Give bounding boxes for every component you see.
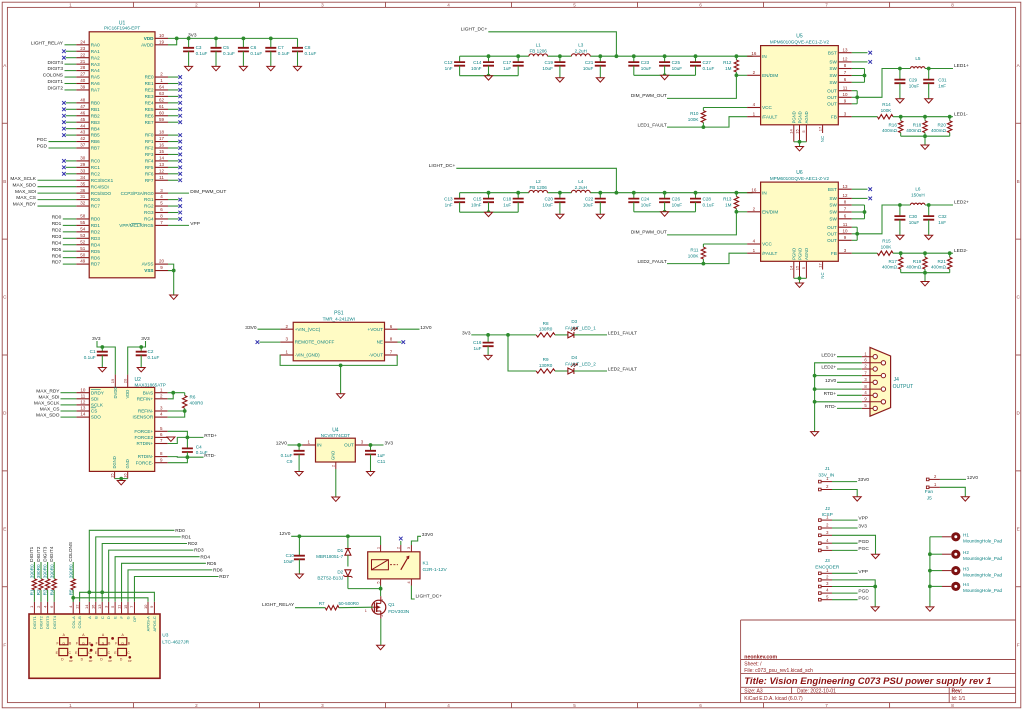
- svg-text:5: 5: [573, 703, 576, 708]
- U1 pin 4 RG1: [144, 194, 182, 202]
- svg-text:3: 3: [160, 188, 163, 193]
- svg-text:RB4: RB4: [91, 126, 100, 131]
- svg-text:VPP: VPP: [190, 221, 200, 227]
- svg-text:H2: H2: [963, 550, 969, 555]
- svg-text:DGND: DGND: [112, 456, 117, 468]
- svg-text:DRDY: DRDY: [91, 390, 104, 395]
- wire RD4 to display segment: [115, 554, 210, 602]
- U1 pin 45 RB3: [62, 117, 100, 125]
- svg-text:RC4/SDI: RC4/SDI: [91, 184, 109, 189]
- svg-text:12: 12: [843, 57, 849, 62]
- svg-text:2: 2: [753, 70, 756, 75]
- svg-text:2: 2: [36, 605, 41, 608]
- svg-text:400mΩ: 400mΩ: [906, 128, 921, 133]
- svg-text:J1: J1: [825, 466, 830, 472]
- U1 pin 32 RC7: [13, 201, 101, 209]
- svg-text:2: 2: [195, 703, 198, 708]
- svg-text:RC6: RC6: [91, 197, 101, 202]
- svg-text:MAX_RDY: MAX_RDY: [13, 202, 37, 208]
- PS1 pin 7 -VOUT: [369, 350, 398, 358]
- svg-text:R13: R13: [723, 196, 732, 201]
- svg-text:COL-A: COL-A: [71, 616, 76, 629]
- U6 pin 10 OUT: [827, 228, 857, 236]
- U2 pin 3 REFIN-: [138, 406, 168, 414]
- wire gnd loop left cap group: [460, 74, 519, 78]
- svg-text:RB6: RB6: [91, 139, 100, 144]
- svg-text:11: 11: [843, 222, 848, 227]
- U1 pin 39 RA7: [48, 85, 101, 93]
- svg-text:MBR18051-7: MBR18051-7: [316, 554, 344, 559]
- svg-text:RG4: RG4: [144, 217, 154, 222]
- U5 pin 2 EN/DIM: [735, 70, 779, 78]
- svg-text:C18: C18: [503, 196, 512, 201]
- wire OUT tie to LED+ rail: [855, 205, 910, 240]
- svg-text:LIGHT_DC+: LIGHT_DC+: [461, 26, 488, 32]
- U5 pin 16 IN: [736, 51, 766, 59]
- svg-text:61: 61: [159, 104, 165, 109]
- capacitor C20 10uF: [542, 191, 565, 214]
- U6 pin 13 BST: [828, 184, 872, 192]
- svg-text:Title: Vision Engineering C073: Title: Vision Engineering C073 PSU power…: [744, 676, 991, 687]
- svg-text:GND: GND: [125, 459, 130, 468]
- wire FORCE- to RTD- node: [168, 457, 188, 463]
- svg-text:390R0: 390R0: [68, 564, 73, 578]
- svg-text:C1: C1: [90, 349, 96, 354]
- svg-text:COLONS: COLONS: [68, 542, 73, 562]
- inductor L4 2.2uH: [571, 179, 590, 193]
- svg-text:390R0: 390R0: [43, 564, 48, 578]
- svg-text:RD2: RD2: [52, 227, 62, 233]
- U1 pin 59 RE7: [145, 117, 182, 125]
- ground at C11: [367, 472, 375, 476]
- svg-text:MountingHole_Pad: MountingHole_Pad: [963, 556, 1003, 561]
- J4 pin 1: [862, 351, 878, 359]
- U2 pin 16 GND: [122, 459, 130, 478]
- svg-text:DP: DP: [132, 616, 137, 622]
- svg-text:49: 49: [80, 259, 86, 264]
- svg-text:F: F: [115, 641, 117, 645]
- svg-text:SDO: SDO: [91, 415, 101, 420]
- U2 pin 7 RTDIN+: [137, 438, 168, 446]
- svg-text:39: 39: [80, 85, 86, 90]
- svg-text:DIGIT1: DIGIT1: [48, 79, 64, 85]
- svg-text:1: 1: [69, 3, 72, 8]
- svg-text:MountingHole_Pad: MountingHole_Pad: [963, 588, 1003, 593]
- wire IN rail of U6: [460, 191, 753, 195]
- ground at C1: [98, 368, 106, 372]
- U1 pin 11 RF7: [145, 175, 182, 183]
- svg-text:C32: C32: [938, 214, 947, 219]
- U2 pin 1 BIAS: [143, 387, 168, 395]
- led D3 FAULT_LED_1: [565, 319, 637, 338]
- svg-text:C25: C25: [672, 60, 681, 65]
- svg-text:2: 2: [934, 474, 937, 479]
- svg-text:RD7: RD7: [52, 260, 62, 266]
- svg-text:DIGIT3: DIGIT3: [48, 66, 64, 72]
- svg-text:RTDIN-: RTDIN-: [138, 454, 154, 459]
- svg-text:10uF: 10uF: [641, 66, 652, 71]
- svg-text:28: 28: [80, 65, 86, 70]
- svg-text:7: 7: [390, 350, 393, 355]
- U1 pin 49 RD7: [52, 259, 101, 267]
- resistor R19 400mOhm: [906, 253, 927, 273]
- svg-text:12: 12: [74, 604, 79, 609]
- capacitor C31 1nF: [923, 67, 953, 99]
- svg-text:+VOUT: +VOUT: [368, 327, 384, 332]
- svg-text:10: 10: [80, 387, 86, 392]
- J4 pin 4: [862, 390, 878, 397]
- svg-text:10nF: 10nF: [471, 202, 482, 207]
- svg-text:1: 1: [365, 609, 367, 613]
- svg-text:6: 6: [844, 77, 847, 82]
- ground at J3: [871, 607, 879, 611]
- svg-text:11: 11: [843, 85, 848, 90]
- svg-text:10uF: 10uF: [583, 202, 594, 207]
- svg-text:RD5: RD5: [207, 561, 217, 567]
- svg-text:L4: L4: [578, 179, 584, 184]
- svg-text:PGND: PGND: [797, 111, 802, 123]
- svg-text:OUT: OUT: [827, 238, 837, 243]
- svg-text:SDI: SDI: [91, 396, 99, 401]
- svg-text:RF1: RF1: [145, 139, 154, 144]
- svg-text:42: 42: [80, 136, 86, 141]
- wire 3V3 rail at U1 VDD: [168, 33, 298, 45]
- svg-text:150uH: 150uH: [911, 192, 925, 197]
- power flag 3V3 fault leds: [462, 331, 510, 337]
- svg-text:C13: C13: [444, 196, 453, 201]
- ground at J2: [872, 554, 880, 558]
- svg-text:3: 3: [103, 605, 108, 608]
- U4 pin 2 GND: [330, 451, 336, 497]
- svg-text:3: 3: [826, 530, 829, 535]
- svg-text:OUT: OUT: [827, 231, 837, 236]
- svg-text:C: C: [1017, 295, 1021, 300]
- svg-text:RC2: RC2: [91, 171, 101, 176]
- svg-text:6: 6: [844, 213, 847, 218]
- U6 pin 6 SW: [829, 213, 864, 221]
- U1 pin 18 RF0: [145, 130, 182, 138]
- svg-text:J5: J5: [927, 495, 932, 501]
- U1 pin 2 RE0: [145, 72, 182, 80]
- ground at J1: [853, 497, 861, 501]
- svg-text:F: F: [76, 641, 78, 645]
- svg-text:D3: D3: [571, 319, 577, 324]
- svg-text:4: 4: [68, 605, 73, 608]
- svg-text:3: 3: [160, 406, 163, 411]
- svg-text:35: 35: [80, 181, 86, 186]
- svg-text:RF5: RF5: [145, 165, 154, 170]
- ground at C2: [137, 368, 145, 372]
- svg-text:SW: SW: [829, 60, 837, 65]
- power flag 3V3 at C2: [128, 336, 150, 375]
- U3 pin 1 DIGIT1: [29, 602, 37, 629]
- svg-text:0.1uF: 0.1uF: [84, 355, 96, 360]
- svg-text:C5: C5: [223, 45, 229, 50]
- U3 pin 13 C: [97, 602, 105, 619]
- svg-text:C24: C24: [641, 196, 650, 201]
- svg-text:R7: R7: [319, 601, 325, 606]
- J1 pin 2 -> gnd: [819, 484, 858, 497]
- svg-text:12V0: 12V0: [276, 441, 288, 447]
- svg-text:0.1uF: 0.1uF: [278, 51, 290, 56]
- svg-text:OUT: OUT: [827, 101, 837, 106]
- svg-text:130R0: 130R0: [539, 327, 553, 332]
- svg-text:7: 7: [844, 70, 847, 75]
- U5 pin 13 BST: [828, 47, 872, 55]
- svg-text:RF6: RF6: [145, 171, 154, 176]
- svg-text:7: 7: [864, 370, 867, 375]
- resistor R4 390R0: [49, 562, 56, 602]
- svg-text:7: 7: [160, 438, 163, 443]
- svg-text:RE4: RE4: [145, 100, 154, 105]
- relay K1 G2R-1-12V body: [368, 552, 448, 579]
- U1 pin 60 RE6: [145, 110, 182, 118]
- svg-text:13: 13: [843, 47, 849, 52]
- svg-text:OUT: OUT: [827, 95, 837, 100]
- svg-text:10uF: 10uF: [542, 66, 553, 71]
- svg-text:RTD-: RTD-: [825, 404, 837, 410]
- wire DIM_PWM_OUT to EN/DIM: [631, 212, 737, 236]
- svg-text:C12: C12: [444, 60, 453, 65]
- svg-text:8: 8: [951, 703, 954, 708]
- svg-text:PGND: PGND: [792, 248, 797, 260]
- svg-text:MAX_SDI: MAX_SDI: [38, 394, 59, 400]
- wire J4 pin3 12V0: [825, 378, 862, 384]
- svg-text:EN/DIM: EN/DIM: [762, 209, 778, 214]
- J4 pin 2: [862, 364, 878, 371]
- svg-text:10uF: 10uF: [542, 202, 553, 207]
- svg-text:R6: R6: [190, 394, 196, 399]
- svg-text:16: 16: [122, 473, 127, 478]
- svg-text:23: 23: [80, 46, 86, 51]
- K1 contact pin 2 no-connect: [396, 537, 403, 552]
- wire sense resistor bottoms: [901, 134, 950, 145]
- U2 pin 14 SDO: [36, 412, 101, 420]
- svg-text:/FAULT: /FAULT: [762, 114, 777, 119]
- svg-text:RA3: RA3: [91, 62, 100, 67]
- U3 pin 14 A: [84, 602, 92, 619]
- svg-text:MAX_SDI: MAX_SDI: [15, 189, 36, 195]
- svg-text:12: 12: [159, 168, 165, 173]
- svg-text:DVDD: DVDD: [113, 387, 118, 399]
- svg-text:0.1uF: 0.1uF: [196, 51, 208, 56]
- U5 pin 6 SW: [829, 77, 864, 85]
- U1 pin 31 RC6: [16, 194, 100, 202]
- svg-text:1uF: 1uF: [377, 453, 385, 458]
- J2 pin 3 -> gnd: [819, 530, 876, 554]
- title block: [741, 620, 1016, 703]
- U5 pin 8 SW: [829, 63, 864, 71]
- svg-text:400mΩ: 400mΩ: [931, 265, 946, 270]
- svg-text:DP: DP: [89, 659, 93, 663]
- svg-text:RD3: RD3: [52, 234, 62, 240]
- svg-text:Rev:: Rev:: [952, 688, 963, 694]
- svg-text:LED1_FAULT: LED1_FAULT: [608, 331, 637, 337]
- svg-text:1: 1: [160, 387, 163, 392]
- svg-text:H3: H3: [963, 566, 969, 571]
- PS1 pin 2 +VIN_(VCC): [245, 324, 321, 332]
- svg-text:VDD: VDD: [125, 390, 130, 399]
- svg-text:E: E: [3, 526, 6, 531]
- wire J4 pin4 RTD+: [824, 391, 862, 397]
- U1 pin 34 RC3/SCK1: [10, 175, 113, 183]
- svg-text:100K: 100K: [688, 253, 700, 258]
- wire RTDIN+ / RTD+ label: [168, 433, 217, 444]
- wire IN rail of U5: [460, 54, 753, 58]
- resistor R8 130R0: [508, 321, 568, 337]
- svg-text:D4: D4: [571, 355, 577, 360]
- svg-text:MAX_SCLK: MAX_SCLK: [34, 401, 60, 407]
- svg-text:+VIN_(VCC): +VIN_(VCC): [295, 327, 321, 332]
- wire RD2 to display segment: [102, 541, 198, 602]
- svg-text:DP: DP: [69, 659, 73, 663]
- capacitor C28 0.1uF: [690, 191, 714, 212]
- ground at C32: [925, 235, 933, 239]
- ground at U4: [332, 497, 340, 501]
- svg-text:10: 10: [843, 92, 849, 97]
- svg-text:F: F: [1017, 642, 1020, 647]
- svg-text:AGND: AGND: [804, 248, 809, 260]
- svg-text:36: 36: [80, 188, 86, 193]
- svg-text:RC5/SDO: RC5/SDO: [91, 191, 112, 196]
- svg-text:58: 58: [80, 214, 86, 219]
- svg-text:LIGHT_DC+: LIGHT_DC+: [429, 163, 456, 169]
- U6 pin 17 NC: [817, 261, 825, 278]
- resistor R9 130R0: [508, 335, 568, 373]
- svg-text:6: 6: [864, 358, 867, 363]
- net label LED2_FAULT: [638, 259, 704, 265]
- resistor R17 400mOhm: [882, 253, 903, 273]
- svg-text:PGD: PGD: [858, 539, 869, 545]
- capacitor C24 10uF: [628, 191, 651, 212]
- inductor L5: [910, 56, 925, 69]
- svg-text:53: 53: [80, 233, 86, 238]
- ground at C16: [484, 355, 492, 359]
- svg-text:RTD-: RTD-: [204, 453, 216, 459]
- svg-text:neonkev.com: neonkev.com: [744, 654, 777, 660]
- inductor L2 FB 1206: [529, 179, 548, 193]
- svg-text:5: 5: [160, 426, 163, 431]
- resistor R1 390R0: [30, 562, 37, 602]
- svg-text:100K: 100K: [688, 117, 700, 122]
- svg-text:D: D: [106, 616, 111, 619]
- svg-text:RE1: RE1: [145, 81, 154, 86]
- J4 pin 3: [862, 377, 878, 384]
- svg-text:8: 8: [844, 63, 847, 68]
- svg-text:20: 20: [159, 259, 165, 264]
- svg-text:3: 3: [406, 546, 411, 549]
- U1 pin 24 RA0: [31, 39, 100, 47]
- ground at C6: [239, 66, 247, 70]
- svg-text:RD4: RD4: [91, 242, 101, 247]
- net label LIGHT_DC+ feeding U6: [429, 163, 617, 193]
- svg-text:RF2: RF2: [145, 146, 154, 151]
- U5 pin 11 OUT: [827, 85, 857, 93]
- svg-text:DIGIT2: DIGIT2: [36, 546, 41, 561]
- wire FORCE+ to RTD+ node: [168, 431, 188, 437]
- svg-text:LIGHT_RELAY: LIGHT_RELAY: [262, 602, 295, 608]
- wire mounting pad ground bus: [928, 537, 932, 607]
- svg-text:GND: GND: [330, 451, 335, 460]
- svg-text:RD0: RD0: [52, 215, 62, 221]
- U5 pin 10 OUT: [827, 92, 857, 100]
- svg-text:44: 44: [80, 123, 86, 128]
- svg-text:PGND: PGND: [792, 111, 797, 123]
- svg-text:5: 5: [826, 594, 829, 599]
- svg-text:AVDD: AVDD: [141, 42, 154, 47]
- ground at U6 PGND: [796, 283, 804, 287]
- svg-text:LED2-: LED2-: [954, 248, 968, 254]
- svg-text:52: 52: [80, 239, 86, 244]
- U1 pin 37 RB7: [37, 143, 100, 151]
- capacitor C12 1nF: [444, 56, 465, 75]
- svg-text:RF7: RF7: [145, 178, 154, 183]
- svg-text:8: 8: [160, 214, 163, 219]
- ground at U5 PGND: [796, 147, 804, 151]
- svg-text:16: 16: [751, 187, 757, 192]
- U1 pin 30 RC0: [62, 156, 100, 164]
- svg-text:1M: 1M: [725, 66, 732, 71]
- svg-text:31: 31: [80, 194, 86, 199]
- svg-text:5: 5: [826, 545, 829, 550]
- U1 pin 17 RF1: [145, 136, 182, 144]
- svg-text:D1: D1: [337, 548, 343, 553]
- U1 pin 52 RD4: [52, 239, 101, 247]
- svg-text:5: 5: [375, 581, 380, 584]
- svg-text:1uF: 1uF: [503, 66, 511, 71]
- svg-text:E: E: [1017, 526, 1020, 531]
- svg-text:U3: U3: [162, 633, 168, 639]
- svg-text:9: 9: [160, 457, 163, 462]
- svg-text:C11: C11: [377, 459, 386, 464]
- svg-text:FDV303N: FDV303N: [388, 609, 410, 615]
- svg-text:33V0: 33V0: [245, 325, 257, 331]
- svg-text:RD7: RD7: [219, 574, 229, 580]
- svg-text:14: 14: [159, 156, 165, 161]
- svg-text:2: 2: [826, 484, 829, 489]
- svg-text:C: C: [100, 616, 105, 619]
- svg-text:19: 19: [159, 39, 165, 44]
- svg-text:15: 15: [794, 129, 799, 134]
- svg-text:10uF: 10uF: [284, 559, 295, 564]
- U3 pin 3 D: [103, 602, 111, 619]
- U2 pin 6 FORCE2: [135, 432, 168, 440]
- svg-text:R19: R19: [913, 259, 922, 264]
- wire COL-B to APOS-C bus: [80, 590, 155, 601]
- wire gnd loop right cap group: [634, 73, 696, 77]
- ground at C31: [925, 99, 933, 103]
- svg-text:15: 15: [159, 149, 165, 154]
- svg-text:C9: C9: [287, 459, 293, 464]
- svg-text:DIM_PWM_OUT: DIM_PWM_OUT: [190, 189, 226, 195]
- svg-text:RD6: RD6: [52, 253, 62, 259]
- svg-text:L6: L6: [915, 186, 921, 191]
- U1 pin 43 RB5: [62, 130, 100, 138]
- svg-text:RF3: RF3: [145, 152, 154, 157]
- svg-text:RD5: RD5: [91, 249, 101, 254]
- wire SW tie: [863, 69, 867, 83]
- J2 pin 4 -> PGD: [819, 538, 870, 545]
- ic U2 MAX31865ATP body: [89, 377, 165, 471]
- svg-text:MAX_SDO: MAX_SDO: [36, 413, 60, 419]
- svg-text:0.1uF: 0.1uF: [703, 66, 715, 71]
- svg-text:10uF: 10uF: [909, 220, 920, 225]
- svg-text:1nF: 1nF: [938, 83, 946, 88]
- U3 seven-segment digit 1: [56, 633, 74, 663]
- svg-text:14: 14: [80, 412, 86, 417]
- svg-text:6: 6: [699, 3, 702, 8]
- U3 pin 10 APOS-A: [143, 602, 151, 632]
